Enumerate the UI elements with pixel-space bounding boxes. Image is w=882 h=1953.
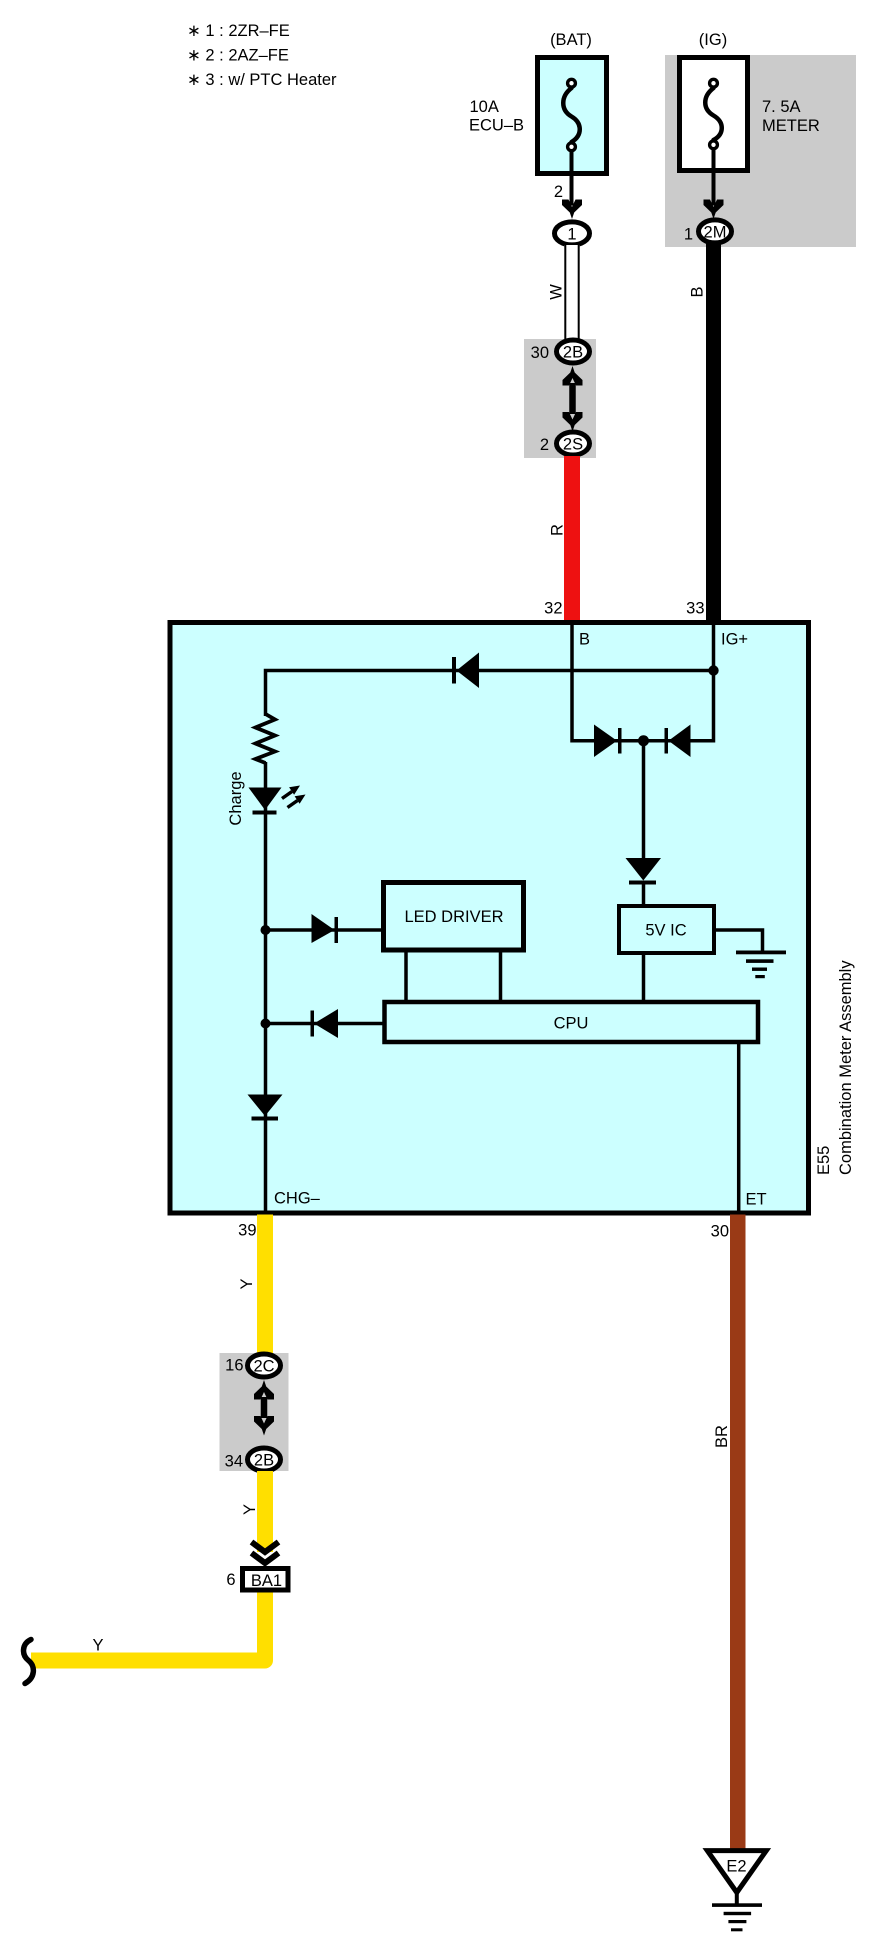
svg-text:2S: 2S	[563, 436, 583, 454]
svg-text:Y: Y	[238, 1278, 256, 1289]
wire	[569, 383, 576, 414]
connector 1	[555, 222, 590, 245]
wire left branch down	[264, 762, 268, 1214]
svg-text:5V IC: 5V IC	[645, 922, 686, 940]
svg-text:∗ 1 : 2ZR–FE: ∗ 1 : 2ZR–FE	[187, 22, 290, 40]
wire Y (yellow) from pin 39	[257, 1215, 273, 1354]
svg-text:B: B	[579, 631, 590, 649]
svg-text:Combination Meter Assembly: Combination Meter Assembly	[837, 960, 855, 1175]
svg-text:10A: 10A	[470, 98, 499, 116]
node to CPU	[261, 1019, 271, 1029]
svg-text:(BAT): (BAT)	[550, 31, 592, 49]
svg-text:16: 16	[225, 1357, 243, 1375]
wire W (white)	[548, 245, 580, 340]
svg-text:BA1: BA1	[251, 1572, 282, 1590]
wire Y (yellow) to body harness	[31, 1593, 265, 1661]
svg-text:30: 30	[531, 344, 549, 362]
fuse 7.5A METER	[680, 58, 820, 171]
wire B (black)	[706, 243, 721, 620]
svg-text:1: 1	[684, 226, 693, 244]
arrow up	[563, 366, 583, 386]
svg-text:6: 6	[226, 1571, 235, 1589]
svg-text:E2: E2	[726, 1858, 746, 1876]
5V IC U2	[619, 906, 714, 953]
wire	[261, 1397, 268, 1418]
wire from fuse ECU-B pin 2	[570, 150, 574, 206]
svg-text:E55: E55	[815, 1146, 833, 1175]
note: engine applicability	[187, 22, 337, 89]
diode D2 pointing right	[312, 914, 339, 943]
diode D1 pointing left	[452, 653, 479, 689]
node at IG+ line	[708, 665, 718, 675]
wire 5V IC to ground	[714, 930, 763, 951]
svg-text:IG+: IG+	[721, 631, 748, 649]
svg-text:∗ 2 : 2AZ–FE: ∗ 2 : 2AZ–FE	[187, 47, 289, 65]
arrow down	[563, 412, 583, 432]
wire BR (brown) from pin 30	[730, 1215, 746, 1849]
svg-text:METER: METER	[762, 117, 820, 135]
svg-text:2: 2	[540, 436, 549, 454]
arrow down	[254, 1416, 274, 1436]
wire 5V IC to CPU	[642, 953, 646, 1002]
arrow down	[704, 200, 724, 220]
svg-text:2C: 2C	[253, 1358, 274, 1376]
diode D4 pointing down	[626, 858, 662, 885]
svg-text:2B: 2B	[254, 1452, 274, 1470]
wire B/IG+ verticals and bottom link	[572, 624, 714, 741]
svg-text:(IG): (IG)	[699, 31, 727, 49]
svg-text:ECU–B: ECU–B	[469, 117, 524, 135]
svg-text:LED DRIVER: LED DRIVER	[404, 908, 503, 926]
node between diode pair	[638, 735, 649, 746]
combination meter assembly box E55	[170, 623, 809, 1214]
wire continuation squiggle	[24, 1640, 34, 1684]
wire from fuse METER pin 1	[712, 148, 716, 206]
svg-text:W: W	[548, 284, 566, 300]
ground E2	[707, 1851, 766, 1932]
svg-text:CPU: CPU	[554, 1015, 589, 1033]
ground (signal)	[736, 951, 786, 979]
wire R (red)	[564, 456, 580, 620]
svg-text:7. 5A: 7. 5A	[762, 98, 801, 116]
wire down from node	[642, 741, 646, 859]
wire Y (yellow) to BA1	[257, 1471, 273, 1552]
junction connector 2B/2S gray block	[524, 339, 596, 458]
wires LED DRIVER to CPU	[404, 951, 408, 1001]
fuse 10A ECU-B	[469, 58, 607, 174]
svg-text:30: 30	[711, 1223, 729, 1241]
svg-text:39: 39	[238, 1222, 256, 1240]
svg-text:1: 1	[567, 226, 576, 244]
svg-text:∗ 3 : w/ PTC Heater: ∗ 3 : w/ PTC Heater	[187, 71, 337, 89]
svg-text:Charge: Charge	[227, 771, 245, 825]
svg-text:32: 32	[544, 600, 562, 618]
svg-text:33: 33	[686, 600, 704, 618]
diode D5 pointing down	[248, 1095, 283, 1121]
svg-text:ET: ET	[746, 1191, 767, 1209]
junction connector 2C/2B gray block	[220, 1353, 289, 1471]
svg-text:R: R	[549, 524, 567, 536]
svg-text:Y: Y	[92, 1637, 103, 1655]
arrow up	[254, 1380, 274, 1400]
node to LED driver	[261, 925, 271, 935]
svg-text:Y: Y	[241, 1504, 259, 1515]
svg-text:B: B	[689, 286, 707, 297]
junction block gray background (IG side)	[665, 55, 856, 247]
wire to CPU	[266, 1022, 385, 1026]
resistor R1	[256, 714, 276, 763]
svg-text:CHG–: CHG–	[274, 1190, 321, 1208]
wire CPU to ET	[737, 1043, 741, 1214]
wire to 5V IC	[642, 881, 646, 906]
splice double chevron	[252, 1542, 279, 1552]
LED Charge	[227, 771, 306, 825]
LED DRIVER U1	[384, 883, 524, 951]
diode pair facing junction	[594, 725, 691, 758]
svg-text:34: 34	[225, 1453, 243, 1471]
svg-text:2M: 2M	[704, 224, 727, 242]
svg-text:2B: 2B	[563, 344, 583, 362]
svg-text:BR: BR	[713, 1425, 731, 1448]
arrow down	[562, 200, 582, 220]
diode D3 pointing left	[311, 1009, 339, 1038]
wire to LED driver	[266, 928, 384, 932]
svg-text:2: 2	[554, 183, 563, 201]
wire horizontal to left branch	[266, 671, 714, 717]
CPU U3	[385, 1002, 759, 1042]
